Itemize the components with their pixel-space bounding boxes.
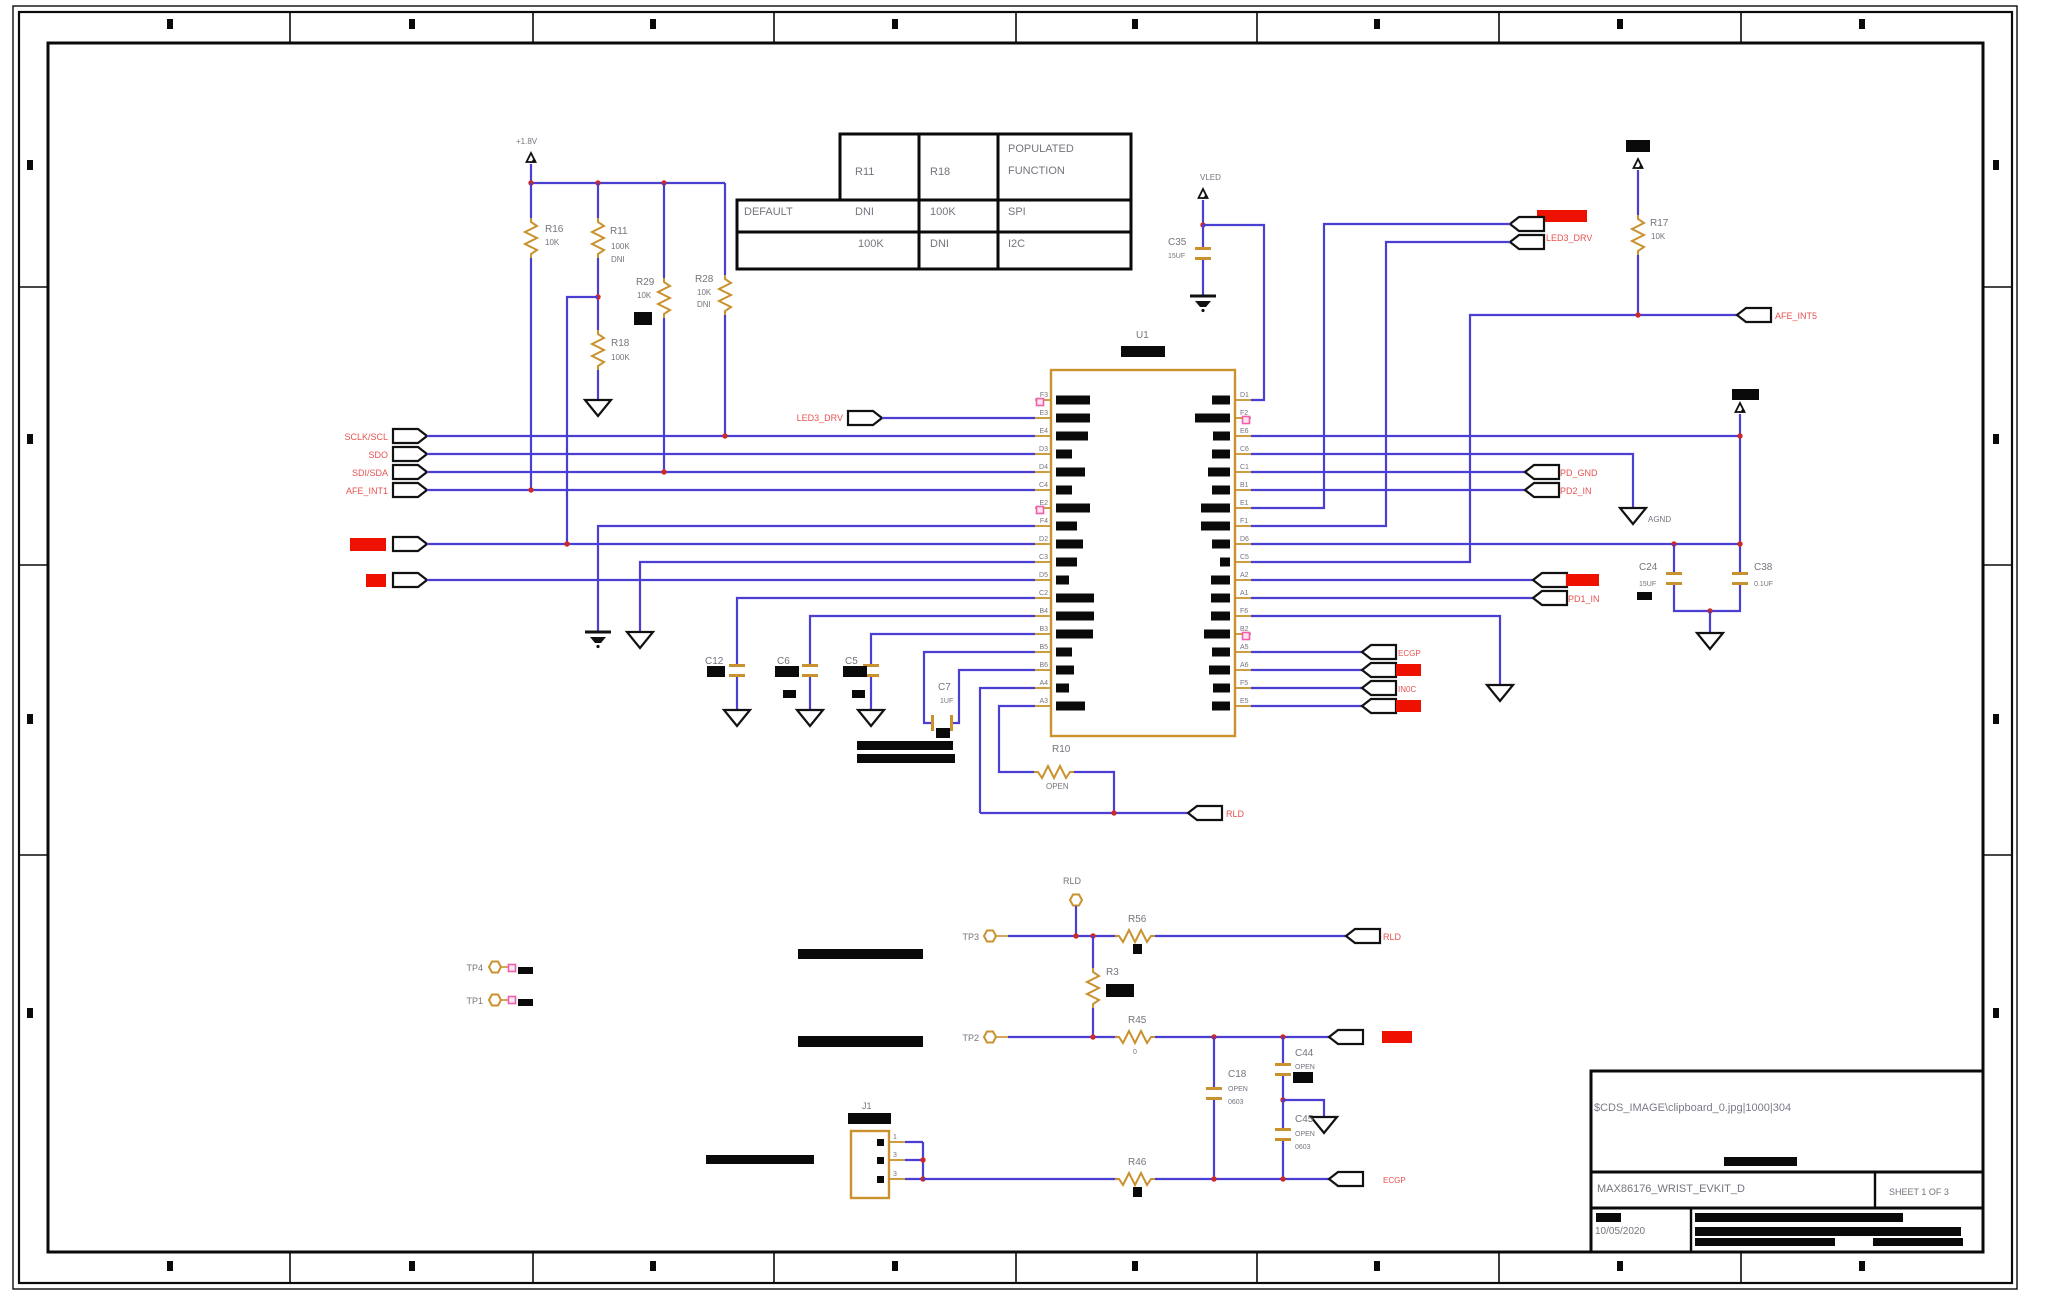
net label ECGP bottom [1383,1176,1406,1185]
ground triangle C5 [858,710,884,726]
svg-text:D4: D4 [1039,464,1048,471]
power +1.8V [516,137,538,183]
capacitor C24 [1639,544,1682,588]
redaction bar title company 2 [1695,1227,1961,1236]
wire C44 to C45 junction [1282,1076,1284,1100]
redaction bar C24 size [1637,592,1652,600]
junction VLED [1200,222,1205,227]
flag TP2 net right [1329,1030,1363,1044]
junction top bus at R16 [528,180,533,185]
J1 pin 1 [877,1134,905,1146]
svg-text:I2C: I2C [1008,238,1025,250]
net label PD_GND [1560,468,1598,478]
svg-text:C35: C35 [1168,237,1187,248]
wire RLD net [980,812,1188,814]
junction J1 pin3 [920,1176,925,1181]
resistor R46 [1115,1157,1155,1185]
wire A1 to PD1_IN [1251,597,1533,599]
wire power to E6 and C38 [1251,414,1740,572]
U1 right pin A6 [1209,662,1251,675]
svg-text:B6: B6 [1039,662,1048,669]
IC U1 reference label [1136,330,1149,341]
U1 left pin B4 [1035,608,1094,621]
redaction bar net name D2 [350,538,386,551]
wire C2 to C12 [737,598,1035,664]
U1 right pin B1 [1212,482,1251,495]
svg-text:10/05/2020: 10/05/2020 [1595,1226,1645,1237]
svg-text:D1: D1 [1240,392,1249,399]
svg-text:C3: C3 [1039,554,1048,561]
wire R45 to flag [1155,1036,1329,1038]
junction E6 power [1737,433,1742,438]
wire R46 to flag [1155,1178,1329,1180]
svg-text:PD_GND: PD_GND [1560,468,1598,478]
svg-text:3: 3 [893,1152,897,1159]
svg-text:R11: R11 [855,166,874,178]
wire B5 to C7 [924,652,1035,723]
wire D5 net [427,579,1035,581]
flag SDO [393,447,427,461]
wire AFE_INT1 [427,489,1035,491]
flag PD1_IN [1533,591,1567,605]
wire D2 net [427,543,1035,545]
connector J1 reference [862,1101,872,1111]
redaction bar TP2 net name [1382,1031,1412,1043]
svg-text:SDI/SDA: SDI/SDA [352,468,388,478]
svg-text:OPEN: OPEN [1228,1086,1248,1093]
flag PD2_IN [1525,483,1559,497]
svg-text:C18: C18 [1228,1069,1247,1080]
flag top right 1 [1510,217,1544,231]
net label SCLK/SCL [344,432,388,442]
U1 left pin D4 [1035,464,1085,477]
capacitor C18 [1206,1037,1248,1106]
wire C7 to B6 [953,670,1035,723]
svg-text:A4: A4 [1039,680,1048,687]
title block [1591,1071,1983,1252]
junction R46 C18 [1211,1176,1216,1181]
resistor R29 [636,183,670,472]
wire F4 to ground [598,526,1035,631]
ground triangle C12 [724,710,750,726]
svg-text:C44: C44 [1295,1048,1314,1059]
junction R46 C45 [1280,1176,1285,1181]
svg-text:C1: C1 [1240,464,1249,471]
wire R11 tap [567,297,598,544]
wire A6 flag [1251,669,1362,671]
svg-text:SDO: SDO [368,450,388,460]
flag D2 net [393,537,427,551]
junction J1 pin2 [920,1157,925,1162]
svg-text:C5: C5 [845,656,858,667]
resistor R16 [525,183,564,490]
svg-text:A5: A5 [1240,644,1249,651]
svg-text:B1: B1 [1240,482,1249,489]
U1 right pin C1 [1208,464,1251,477]
U1 right pin C5 [1220,554,1251,567]
wire B1 to PD2_IN [1251,489,1525,491]
ground triangle C24 C38 [1697,633,1723,649]
net label SDO [368,450,388,460]
svg-text:C4: C4 [1039,482,1048,489]
svg-text:TP4: TP4 [466,963,483,973]
wire A3 to R10 [999,706,1035,772]
svg-text:J1: J1 [862,1101,872,1111]
junction R45 C18 [1211,1034,1216,1039]
net label AFE_INT5 [1775,311,1817,321]
U1 left pin E3 [1035,410,1090,423]
redaction bar title company 3b [1873,1238,1963,1246]
U1 right pin E5 [1212,698,1251,711]
svg-text:PD1_IN: PD1_IN [1568,594,1600,604]
U1 left pin C3 [1035,554,1077,567]
redaction bar J1 value [848,1113,891,1124]
U1 left pin B3 [1035,626,1093,639]
svg-text:AFE_INT1: AFE_INT1 [346,486,388,496]
U1 left pin C4 [1035,482,1072,495]
svg-text:100K: 100K [611,242,630,251]
svg-text:10K: 10K [1651,232,1666,241]
node RLD [1063,876,1082,936]
resistor R28 [695,183,731,436]
svg-text:TP1: TP1 [466,996,483,1006]
svg-text:R11: R11 [610,226,628,237]
net label ECGP [1398,649,1421,658]
svg-text:DNI: DNI [930,238,949,250]
svg-text:AFE_INT5: AFE_INT5 [1775,311,1817,321]
svg-text:R45: R45 [1128,1015,1147,1026]
capacitor C12 [705,656,745,677]
ground triangle AGND [1620,508,1671,524]
svg-text:LED3_DRV: LED3_DRV [797,413,843,423]
U1 left pin D3 [1035,446,1072,459]
test point TP2 [962,1032,1008,1044]
power arrow right [1736,403,1745,413]
redaction bar net name top right [1537,210,1587,222]
svg-text:DEFAULT: DEFAULT [744,206,793,218]
U1 pin B2 no-connect marker [1243,633,1250,640]
redaction bar C6 size [783,690,796,698]
resistor R11 [592,183,630,330]
power VLED [1199,173,1222,225]
svg-text:R18: R18 [930,166,950,178]
wire J1 pins common [905,1142,923,1179]
svg-text:ECGP: ECGP [1383,1176,1406,1185]
test point TP4 [466,962,509,974]
flag SDI/SDA [393,465,427,479]
J1 pin 3 [877,1171,905,1183]
svg-text:R46: R46 [1128,1157,1147,1168]
svg-text:$CDS_IMAGE\clipboard_0.jpg|100: $CDS_IMAGE\clipboard_0.jpg|1000|304 [1594,1102,1791,1114]
redaction bar title company 1 [1695,1213,1903,1222]
svg-text:E5: E5 [1240,698,1249,705]
U1 right pin D1 [1212,392,1251,405]
wire C5 to ground [870,677,872,709]
wire AFE_INT5 net [1251,315,1737,562]
junction R45 C44 [1280,1034,1285,1039]
redaction bar A6 net name [1396,664,1421,676]
U1 right pin F2 [1195,410,1251,423]
capacitor C38 [1732,562,1773,588]
wire C18 bottom [1213,1100,1215,1179]
U1 right pin F6 [1211,608,1251,621]
junction AFE_INT1 R16 [528,487,533,492]
flag PD_GND [1525,465,1559,479]
svg-text:C6: C6 [777,656,790,667]
wire C45 bottom [1282,1141,1284,1179]
redaction bar R29 value [634,312,652,325]
redaction block bottom note 1 [798,949,923,959]
flag F5 net [1362,681,1396,695]
junction D6 C38 [1737,541,1742,546]
junction TP2 R3 [1090,1034,1095,1039]
redaction bar power net right [1732,389,1759,400]
svg-text:ECGP: ECGP [1398,649,1421,658]
junction top bus at R11 [595,180,600,185]
junction C44 C45 ground tap [1280,1097,1285,1102]
net label LED3_DRV top right [1546,233,1592,243]
U1 left pin D5 [1035,572,1069,585]
svg-text:TP3: TP3 [962,932,979,942]
U1 right pin C6 [1212,446,1251,459]
svg-text:DNI: DNI [611,255,625,264]
capacitor C35 [1168,225,1211,260]
junction SDI/SDA R29 [661,469,666,474]
svg-text:DNI: DNI [855,206,874,218]
svg-text:F6: F6 [1240,608,1248,615]
ground earth C35 [1190,296,1216,312]
wire C12 to ground [736,677,738,709]
redaction bar TP1 net [518,999,533,1006]
svg-text:D2: D2 [1039,536,1048,543]
U1 pin F3 no-connect marker [1037,399,1044,406]
net label PD1_IN [1568,594,1600,604]
redaction bar C5 value [843,666,867,677]
flag SCLK/SCL [393,429,427,443]
svg-text:E1: E1 [1240,500,1249,507]
redaction bar C44 size [1293,1072,1313,1083]
redaction block note line 1 [857,741,953,750]
U1 right pin A5 [1212,644,1251,657]
svg-text:U1: U1 [1136,330,1149,341]
wire SDO [427,453,1035,455]
U1 right pin B2 [1204,626,1251,639]
wire C3 to ground [640,562,1035,631]
ground triangle F6 [1487,685,1513,701]
svg-text:E6: E6 [1240,428,1249,435]
net label IN0C [1398,685,1416,694]
capacitor C6 [777,656,818,677]
svg-text:R10: R10 [1052,744,1071,755]
wire top flag2 to pin F1 [1251,242,1510,526]
svg-text:A3: A3 [1039,698,1048,705]
U1 right pin A1 [1211,590,1251,603]
wire C35 to ground [1202,260,1204,295]
svg-text:VLED: VLED [1200,173,1221,182]
wire TP3 net [1008,935,1117,937]
wire A4 to RLD net [980,688,1035,813]
svg-text:POPULATED: POPULATED [1008,143,1074,155]
U1 left pin E2 [1035,500,1090,513]
U1 right pin A2 [1211,572,1251,585]
wire A2 flag [1251,579,1533,581]
redaction bar R3 value [1106,984,1134,997]
svg-text:C12: C12 [705,656,724,667]
svg-text:0603: 0603 [1295,1144,1311,1151]
wire ground tap [1283,1100,1324,1116]
net label SDI/SDA [352,468,388,478]
svg-text:B4: B4 [1039,608,1048,615]
svg-text:A6: A6 [1240,662,1249,669]
wire E5 flag [1251,705,1362,707]
wire top flag1 to pin E1 [1251,224,1510,508]
svg-text:E4: E4 [1039,428,1048,435]
wire C6pin to AGND [1251,454,1633,507]
ground triangle C3 [627,632,653,648]
svg-text:3: 3 [893,1171,897,1178]
svg-text:E3: E3 [1039,410,1048,417]
svg-text:D5: D5 [1039,572,1048,579]
svg-text:MAX86176_WRIST_EVKIT_D: MAX86176_WRIST_EVKIT_D [1597,1183,1745,1195]
svg-text:IN0C: IN0C [1398,685,1416,694]
ground earth F4 [585,632,611,648]
svg-text:10K: 10K [545,238,560,247]
wire SDI/SDA [427,471,1035,473]
svg-text:10K: 10K [697,288,712,297]
flag ECGP bottom [1329,1172,1363,1186]
svg-text:C2: C2 [1039,590,1048,597]
svg-text:OPEN: OPEN [1295,1131,1315,1138]
net label RLD bottom [1383,932,1402,942]
svg-text:R16: R16 [545,224,564,235]
svg-text:TP2: TP2 [962,1033,979,1043]
svg-text:OPEN: OPEN [1046,782,1069,791]
U1 right pin F5 [1213,680,1251,693]
redaction bar U1 value [1121,346,1165,357]
svg-text:B3: B3 [1039,626,1048,633]
svg-text:SHEET 1 OF 3: SHEET 1 OF 3 [1889,1187,1949,1197]
svg-text:SCLK/SCL: SCLK/SCL [344,432,388,442]
redaction block note line 2 [857,754,955,763]
wire TP2 net [1008,1036,1117,1038]
svg-text:100K: 100K [611,353,630,362]
wire B3 to C5 [871,634,1035,664]
svg-text:+1.8V: +1.8V [516,137,538,146]
redaction bar R56 value [1133,944,1142,954]
flag RLD bottom [1346,929,1380,943]
junction D2 net R11 tap [564,541,569,546]
J1 pin 2 [877,1152,905,1164]
redaction bar title date label [1596,1213,1621,1222]
redaction bar title company 3a [1695,1238,1835,1246]
redaction bar power net R17 [1626,140,1650,152]
svg-text:FUNCTION: FUNCTION [1008,165,1065,177]
wire D6 net [1251,543,1740,545]
wire SCLK/SCL [427,435,1035,437]
test point TP3 [962,931,1008,943]
U1 left pin F3 [1035,392,1090,405]
flag E5 net [1362,699,1396,713]
net label LED3_DRV left [797,413,843,423]
ground triangle C44 [1311,1117,1337,1133]
redaction block J1 note [706,1155,814,1164]
power arrow R17 [1634,159,1643,169]
wire R56 to RLD flag [1155,935,1346,937]
svg-text:OPEN: OPEN [1295,1064,1315,1071]
svg-text:C45: C45 [1295,1114,1314,1125]
svg-text:RLD: RLD [1383,932,1402,942]
svg-text:F4: F4 [1040,518,1048,525]
resistor R18 [592,330,630,399]
svg-text:LED3_DRV: LED3_DRV [1546,233,1592,243]
wire LED3_DRV to pin E3 [882,417,1035,419]
redaction bar C12 value [707,666,725,677]
U1 right pin E1 [1201,500,1251,513]
resistor R3 [1087,936,1119,1037]
junction D6 C24 [1671,541,1676,546]
svg-text:RLD: RLD [1063,876,1082,886]
svg-text:R3: R3 [1106,967,1119,978]
U1 left pin B6 [1035,662,1074,675]
ground triangle C6 [797,710,823,726]
wire C6 to ground [809,677,811,709]
svg-text:15UF: 15UF [1168,253,1185,260]
redaction bar net name D5 [366,574,386,587]
svg-text:10K: 10K [637,291,652,300]
svg-text:C6: C6 [1240,446,1249,453]
net label AFE_INT1 [346,486,388,496]
U1 left pin A4 [1035,680,1069,693]
test point TP1 [466,995,509,1007]
svg-text:A2: A2 [1240,572,1249,579]
TP4 no-connect marker [509,965,516,972]
resistor R45 [1115,1015,1155,1056]
table R11/R18 populated function [737,134,1131,269]
redaction bar R46 value [1133,1187,1142,1197]
flag AFE_INT1 [393,483,427,497]
flag D5 net [393,573,427,587]
wire C1 to PD_GND [1251,471,1525,473]
U1 right pin D6 [1212,536,1251,549]
TP1 no-connect marker [509,997,516,1004]
svg-text:R17: R17 [1650,218,1669,229]
U1 left pin C2 [1035,590,1094,603]
wire junction to ground [1709,611,1711,632]
resistor R10 [1034,744,1074,791]
U1 left pin E4 [1035,428,1088,441]
redaction bar A2 net name [1566,574,1599,586]
flag AFE_INT5 [1737,308,1771,322]
U1 left pin F4 [1035,518,1077,531]
capacitor C45 [1275,1100,1315,1151]
svg-text:1UF: 1UF [940,698,953,705]
connector J1 body [851,1131,889,1198]
svg-text:R28: R28 [695,274,714,285]
svg-text:D3: D3 [1039,446,1048,453]
flag A6 net [1362,663,1396,677]
svg-text:C24: C24 [1639,562,1658,573]
junction top bus at R29 [661,180,666,185]
svg-text:RLD: RLD [1226,809,1245,819]
redaction bar TP4 net [518,967,533,974]
svg-text:100K: 100K [858,238,884,250]
wire A5 flag [1251,651,1362,653]
junction AFE_INT5 R17 [1635,312,1640,317]
svg-text:B5: B5 [1039,644,1048,651]
wire top bus +1.8V [531,182,725,184]
junction SCLK/SCL R28 [722,433,727,438]
svg-text:C38: C38 [1754,562,1773,573]
